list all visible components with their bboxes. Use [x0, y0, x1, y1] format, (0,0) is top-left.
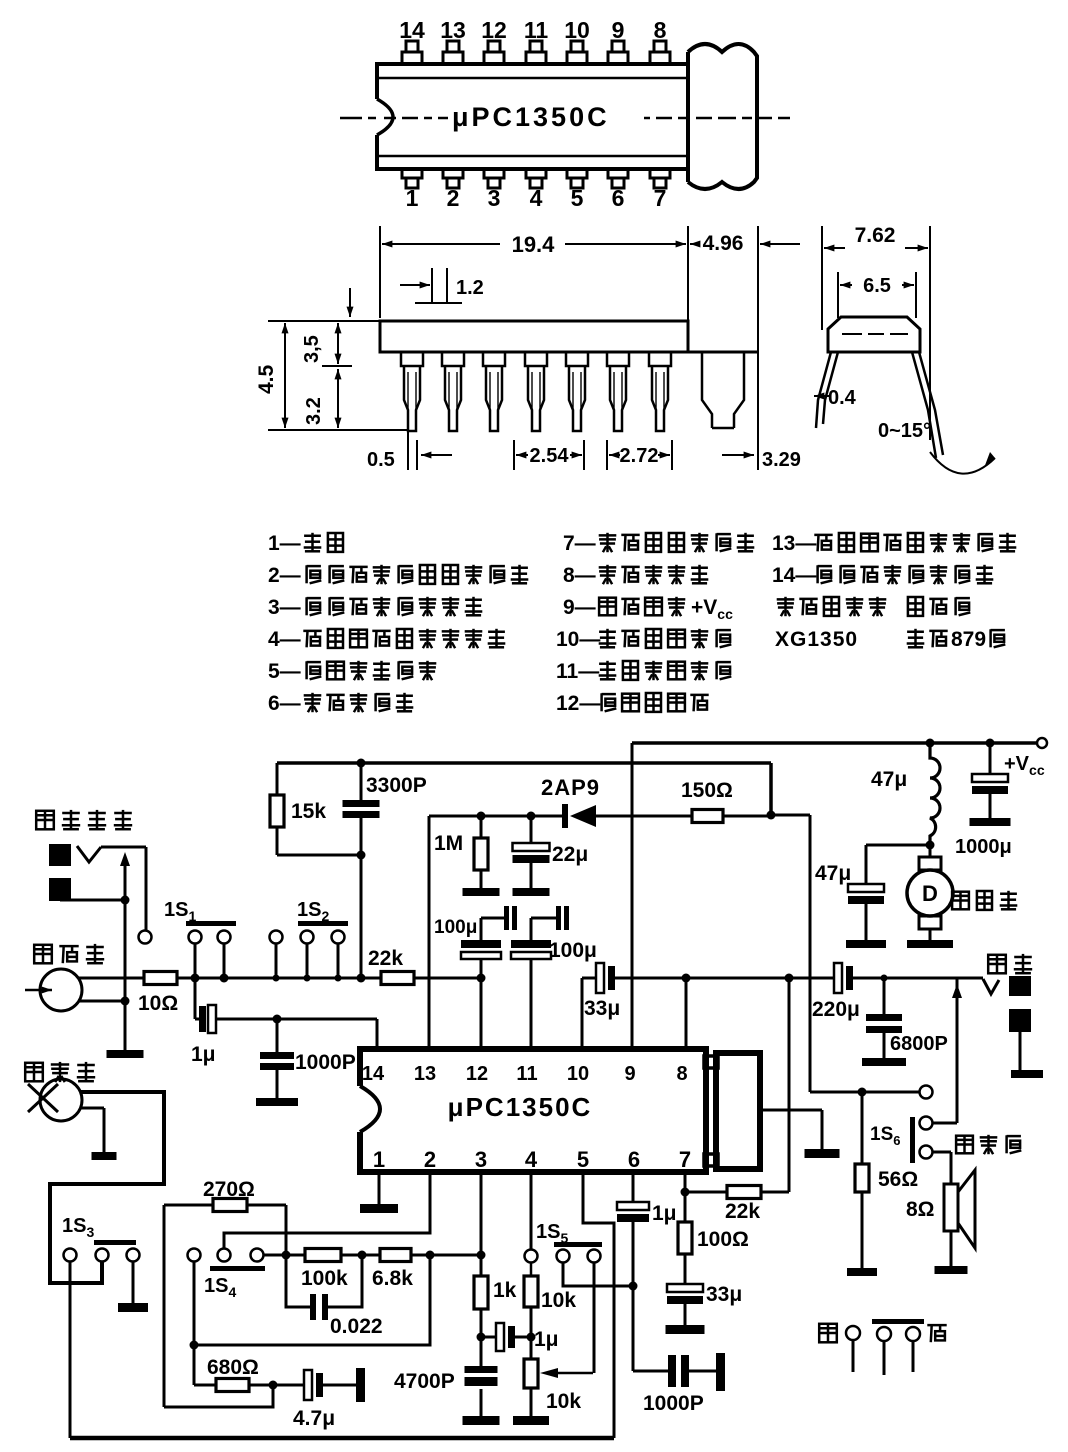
resistor 150ohm — [692, 810, 723, 823]
wire pin9 to rail B — [631, 743, 634, 1049]
capacitor 4.7u — [304, 1370, 312, 1400]
mic jack sleeve contact arrow — [60, 899, 125, 902]
svg-text:13—: 13— — [772, 532, 816, 555]
svg-text:100k: 100k — [301, 1267, 348, 1290]
svg-text:1μ: 1μ — [534, 1328, 559, 1351]
record/play position legend — [819, 1324, 837, 1343]
svg-text:11—: 11— — [556, 660, 599, 683]
legend replacement type header — [784, 597, 787, 616]
pin 12 (top view) — [484, 52, 504, 64]
earphone jack contact arrow — [956, 978, 959, 1123]
capacitor stub pin12 node — [481, 917, 504, 920]
pin 6 (top view) — [608, 169, 628, 178]
resistor 6.8k — [380, 1249, 411, 1262]
svg-text:4: 4 — [530, 185, 543, 211]
svg-text:2: 2 — [424, 1147, 436, 1172]
capacitor 6800P to ground — [881, 975, 888, 982]
svg-text:33μ: 33μ — [584, 997, 620, 1020]
dim 7.62 — [824, 247, 845, 249]
wire pin2 to 1S4 — [224, 1172, 430, 1248]
potentiometer 10k — [524, 1359, 538, 1388]
svg-text:10: 10 — [564, 17, 590, 43]
svg-text:100μ: 100μ — [434, 917, 477, 938]
svg-text:3: 3 — [488, 185, 501, 211]
svg-text:13: 13 — [414, 1063, 436, 1085]
svg-text:14: 14 — [399, 17, 425, 43]
svg-text:14: 14 — [362, 1063, 385, 1085]
pin 8 (top view) — [650, 52, 670, 64]
capacitor 22u — [527, 812, 536, 821]
diode 2AP9 — [562, 804, 568, 828]
svg-text:6: 6 — [612, 185, 625, 211]
svg-text:6—: 6— — [268, 692, 301, 715]
wire mic tip to switch — [101, 846, 146, 849]
svg-text:2.72: 2.72 — [620, 445, 659, 467]
wire pin8 to output node — [685, 978, 688, 1049]
end view body — [828, 317, 920, 352]
svg-text:6: 6 — [628, 1147, 640, 1172]
svg-text:11: 11 — [524, 17, 549, 43]
lead 6 side view — [607, 352, 629, 366]
wire main line left — [177, 977, 381, 980]
lead 7 side view — [649, 352, 671, 366]
svg-text:19.4: 19.4 — [512, 232, 556, 257]
dim 3.29 — [722, 454, 754, 456]
svg-text:22k: 22k — [368, 947, 403, 970]
svg-text:μPC1350C: μPC1350C — [452, 102, 610, 132]
svg-text:3: 3 — [475, 1147, 487, 1172]
svg-text:+Vcc: +Vcc — [1004, 753, 1045, 778]
wire 1S5 right to pot wiper — [593, 1263, 596, 1373]
svg-text:3—: 3— — [268, 596, 301, 619]
capacitor 1000P (pin6) — [633, 1370, 668, 1373]
svg-text:0.022: 0.022 — [330, 1315, 383, 1338]
svg-text:1.2: 1.2 — [456, 277, 484, 299]
svg-text:10—: 10— — [556, 628, 600, 651]
wire 270ohm right to EQ node — [285, 1205, 288, 1255]
svg-text:+Vcc: +Vcc — [691, 596, 733, 622]
wire pin5 to bottom rail — [583, 1172, 614, 1438]
wire 1S3 right to ground — [132, 1262, 135, 1303]
svg-text:6.5: 6.5 — [863, 275, 891, 297]
pin 3 (top view) — [484, 169, 504, 178]
svg-text:22k: 22k — [725, 1200, 760, 1223]
wire 270ohm left branch — [163, 1205, 166, 1407]
svg-text:5: 5 — [577, 1147, 589, 1172]
resistor 680ohm — [194, 1384, 216, 1387]
svg-text:1: 1 — [373, 1147, 385, 1172]
svg-text:3.29: 3.29 — [762, 449, 801, 471]
wire output to 22k feedback — [788, 978, 791, 1192]
wire 1S1 to 1u coupling — [194, 978, 197, 1019]
svg-text:220μ: 220μ — [812, 998, 860, 1021]
svg-text:D: D — [922, 881, 938, 906]
svg-text:7.62: 7.62 — [855, 224, 896, 247]
svg-text:2AP9: 2AP9 — [541, 775, 600, 800]
pin 1 (top view) — [402, 169, 422, 178]
wire 1S6 middle to earphone line — [933, 1122, 957, 1125]
svg-text:12—: 12— — [556, 692, 600, 715]
svg-text:1μ: 1μ — [191, 1043, 216, 1066]
node pin12 / main line — [477, 974, 486, 983]
pin 7 (top view) — [650, 169, 670, 178]
wire 1S6 bottom to speaker — [933, 1151, 951, 1154]
dim 3.2 — [337, 369, 339, 380]
wire pin13 vertical — [428, 816, 431, 1049]
IC tab — [716, 1053, 760, 1169]
wire pin10 to bootstrap cap 33u — [581, 978, 584, 1049]
capacitor 4700P — [465, 1366, 498, 1373]
svg-text:5—: 5— — [268, 660, 301, 683]
resistor 100ohm (pin7) — [684, 1172, 687, 1222]
speaker 8ohm — [956, 1136, 973, 1154]
contact circle mic input — [270, 931, 283, 944]
resistor 22k (input) — [381, 972, 414, 985]
svg-text:0.4: 0.4 — [828, 387, 857, 409]
wire 150ohm node to speaker switch — [771, 814, 810, 817]
wire motor node — [926, 841, 935, 850]
svg-text:680Ω: 680Ω — [207, 1356, 259, 1379]
dim 4.5 — [268, 320, 380, 322]
resistor 270ohm — [164, 1204, 213, 1207]
svg-text:12: 12 — [466, 1063, 488, 1085]
wire output line — [615, 977, 834, 980]
svg-text:150Ω: 150Ω — [681, 779, 733, 802]
capacitor 1u (pin6) — [632, 1172, 635, 1202]
wire +Vcc rail B — [632, 741, 1037, 745]
wire EQ return — [194, 1255, 430, 1345]
pot wiper arrow — [558, 1372, 593, 1375]
node main line / 3300P — [357, 974, 366, 983]
capacitor 33u (pin7) — [684, 1254, 687, 1284]
svg-text:7—: 7— — [563, 532, 596, 555]
wire 1S3 left to bottom rail — [69, 1262, 72, 1438]
pin 10 (top view) — [567, 52, 587, 64]
lead 1 side view — [401, 352, 423, 366]
svg-text:1S2: 1S2 — [297, 899, 329, 924]
capacitor 1u (pin3-pin4) — [481, 1336, 496, 1339]
wire mic sleeve to ground — [124, 900, 127, 1050]
svg-text:8: 8 — [676, 1063, 687, 1085]
external microphone jack — [36, 811, 54, 830]
capacitor stub pin11 node — [531, 917, 556, 920]
pin 5 (top view) — [567, 169, 587, 178]
wire rail A drop to 150ohm node — [769, 763, 773, 815]
svg-text:4.7μ: 4.7μ — [293, 1407, 335, 1430]
svg-text:1S4: 1S4 — [204, 1275, 236, 1300]
wire head top lead — [78, 977, 144, 980]
resistor 10k (pin4) — [524, 1276, 538, 1307]
svg-text:4.96: 4.96 — [703, 232, 744, 255]
capacitor 100u (pin12) — [480, 918, 483, 940]
capacitor 0.022 — [286, 1255, 310, 1307]
end view left lead — [816, 352, 838, 428]
wire EQ line — [264, 1254, 286, 1257]
svg-text:7: 7 — [654, 185, 667, 211]
pin 2 (top view) — [443, 169, 463, 178]
capacitor 1000P (pin14) — [276, 1019, 279, 1052]
dim 2.72 — [606, 440, 608, 470]
dim 3,5 — [322, 365, 352, 367]
svg-text:10: 10 — [567, 1063, 589, 1085]
svg-text:9: 9 — [624, 1063, 635, 1085]
svg-text:7: 7 — [679, 1147, 691, 1172]
resistor 1k (pin3) — [480, 1172, 483, 1276]
pin 9 (top view) — [608, 52, 628, 64]
svg-text:1—: 1— — [268, 532, 301, 555]
pin 11 (top view) — [526, 52, 546, 64]
svg-text:2.54: 2.54 — [530, 445, 570, 467]
terminal +Vcc — [1037, 738, 1047, 748]
wire 15k bottom to 3300P — [277, 854, 361, 857]
svg-text:10k: 10k — [541, 1289, 576, 1312]
svg-text:8Ω: 8Ω — [906, 1198, 935, 1221]
wire to pin 14 — [376, 1019, 379, 1049]
erase head — [25, 1063, 43, 1082]
wire pin1 to ground — [378, 1172, 381, 1204]
package end view — [821, 226, 823, 330]
svg-text:8—: 8— — [563, 564, 596, 587]
IC uPC1350C — [360, 1049, 706, 1172]
svg-text:47μ: 47μ — [871, 768, 907, 791]
resistor 10ohm — [144, 972, 177, 985]
svg-text:47μ: 47μ — [815, 862, 851, 885]
IC package end cap — [688, 44, 757, 189]
dim 1.2 — [431, 268, 433, 302]
wire 1S5 left to pin6 node — [563, 1263, 633, 1286]
dim 19.4 — [382, 243, 500, 245]
svg-text:0.5: 0.5 — [367, 449, 395, 471]
dim 6.5 — [837, 272, 839, 318]
svg-text:1000μ: 1000μ — [955, 836, 1012, 858]
resistor 22k (feedback) — [685, 1191, 727, 1194]
svg-text:4700P: 4700P — [394, 1370, 455, 1393]
svg-text:1S6: 1S6 — [870, 1124, 900, 1148]
record/play head — [34, 945, 52, 964]
leader arrow top — [349, 288, 351, 317]
end view right lead — [912, 352, 943, 458]
svg-text:100μ: 100μ — [549, 939, 597, 962]
wire pin4 to 10k — [530, 1172, 533, 1249]
svg-text:μPC1350C: μPC1350C — [448, 1092, 593, 1122]
svg-text:14—: 14— — [772, 564, 816, 587]
capacitor 1u (head coupling) — [199, 1006, 206, 1032]
svg-text:10Ω: 10Ω — [138, 992, 178, 1015]
motor D — [929, 845, 932, 858]
svg-text:270Ω: 270Ω — [203, 1178, 255, 1201]
svg-text:22μ: 22μ — [552, 843, 588, 866]
svg-text:56Ω: 56Ω — [878, 1168, 918, 1191]
wide end lead side view — [702, 352, 744, 428]
svg-text:9—: 9— — [563, 596, 596, 619]
svg-text:1000P: 1000P — [643, 1392, 704, 1415]
svg-text:4: 4 — [525, 1147, 538, 1172]
svg-text:1S3: 1S3 — [62, 1215, 94, 1240]
svg-text:XG1350: XG1350 — [775, 628, 858, 651]
svg-text:4.5: 4.5 — [255, 364, 278, 394]
inductor 47u (motor filter choke) — [926, 739, 935, 748]
svg-text:879: 879 — [951, 628, 986, 651]
svg-text:4—: 4— — [268, 628, 301, 651]
svg-text:2—: 2— — [268, 564, 301, 587]
wire tab to ground — [760, 1109, 822, 1112]
capacitor 3300P — [360, 763, 363, 800]
capacitor 1000u — [986, 739, 995, 748]
capacitor 220u (output coupling) — [834, 963, 842, 993]
resistor 56ohm — [861, 1092, 864, 1164]
svg-text:1000P: 1000P — [295, 1051, 356, 1074]
wire 680ohm bottom loop — [164, 1385, 273, 1407]
lead 5 side view — [566, 352, 588, 366]
lead 3 side view — [483, 352, 505, 366]
earphone jack — [988, 955, 1006, 974]
resistor 100k — [305, 1249, 341, 1262]
svg-text:8: 8 — [654, 17, 667, 43]
dimension figure: side view — [379, 226, 381, 318]
svg-text:1k: 1k — [493, 1279, 517, 1302]
svg-text:10k: 10k — [546, 1390, 581, 1413]
lead 4 side view — [525, 352, 547, 366]
svg-text:100Ω: 100Ω — [697, 1228, 749, 1251]
svg-text:1μ: 1μ — [652, 1202, 677, 1225]
wire top rail A — [277, 761, 771, 765]
svg-text:12: 12 — [481, 17, 507, 43]
dim 2.54 — [513, 440, 515, 470]
svg-text:0~15°: 0~15° — [878, 420, 931, 442]
pin 14 (top view) — [402, 52, 422, 64]
IC package top view uPC1350C — [377, 64, 688, 169]
lead 2 side view — [442, 352, 464, 366]
resistor 1M — [477, 812, 486, 821]
svg-text:1M: 1M — [434, 832, 463, 855]
svg-text:3300P: 3300P — [366, 774, 427, 797]
wire 1S4 left to 680ohm — [193, 1262, 196, 1385]
pin 13 (top view) — [443, 52, 463, 64]
svg-text:6800P: 6800P — [890, 1033, 948, 1055]
wire erase head bottom to ground — [80, 1107, 104, 1110]
svg-text:3.2: 3.2 — [303, 397, 325, 425]
capacitor 33u (bootstrap) — [596, 963, 604, 993]
svg-text:13: 13 — [440, 17, 466, 43]
resistor 15k — [276, 763, 279, 795]
capacitor 47u (motor) — [865, 845, 868, 884]
capacitor 100u (pin11) — [530, 918, 533, 940]
svg-text:5: 5 — [571, 185, 584, 211]
wire erase head top loop — [50, 1092, 164, 1283]
svg-text:3,5: 3,5 — [301, 335, 323, 363]
diode 2AP9 line (pin13 node) — [429, 815, 565, 818]
svg-text:6.8k: 6.8k — [372, 1267, 413, 1290]
svg-text:9: 9 — [612, 17, 625, 43]
svg-text:11: 11 — [516, 1063, 537, 1085]
wire bottom rail — [70, 1436, 614, 1441]
svg-text:15k: 15k — [291, 800, 326, 823]
pin 4 (top view) — [526, 169, 546, 178]
package body side view — [380, 321, 688, 352]
wire head bottom lead — [78, 1000, 125, 1003]
svg-text:2: 2 — [447, 185, 460, 211]
svg-text:33μ: 33μ — [706, 1283, 742, 1306]
svg-text:1: 1 — [406, 185, 419, 211]
svg-text:1S1: 1S1 — [164, 899, 196, 924]
